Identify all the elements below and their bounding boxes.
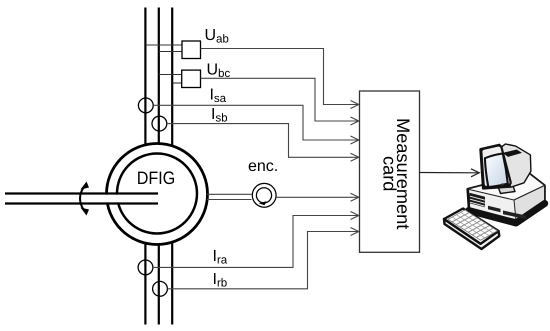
wire: stator phase line b (vertical) (158, 8, 160, 148)
arrow into card input 6 (351, 212, 359, 220)
encoder rotation mark (259, 201, 267, 205)
label Isa (211, 88, 226, 102)
current transducer Isb (circle on phase b) (152, 116, 167, 131)
computer case bottom base band (469, 204, 545, 224)
wire: Ira output to measurement card (153, 216, 358, 268)
tap wire: phase b to voltage transducer Uab (159, 51, 182, 53)
computer case drive slot wide (503, 211, 526, 220)
label DFIG (138, 171, 174, 184)
computer case drive slot small (488, 206, 501, 213)
computer case top face (468, 174, 545, 201)
computer icon (PC with monitor, case, keyboard) (444, 145, 545, 249)
tap wire: phase c to voltage transducer Ubc (172, 82, 182, 84)
machine DFIG inner circle (117, 154, 197, 234)
arrow into card input 7 (351, 228, 359, 236)
voltage transducer Ubc (square) (182, 70, 201, 87)
measurement card box (360, 91, 420, 252)
rotation arrow on shaft (80, 182, 89, 216)
label Ubc (208, 63, 230, 77)
machine DFIG outer circle (107, 144, 208, 245)
monitor CRT right side face (502, 145, 531, 187)
arrow into card input 5 (351, 193, 359, 201)
wire: Irb output to measurement card (167, 232, 357, 289)
arrow into card input 3 (351, 136, 359, 144)
wire: rotor phase line c (vertical) (171, 241, 173, 325)
wire: rotor phase line b (vertical) (158, 241, 160, 325)
encoder shaft (double thin line from DFIG to encoder) (207, 194, 252, 199)
wire: encoder output to measurement card (276, 196, 357, 198)
computer case vent grille (470, 193, 486, 207)
label Ira (214, 250, 227, 264)
label enc. (249, 162, 277, 171)
monitor power dot (501, 183, 503, 185)
wire: Uab output to measurement card (201, 49, 358, 105)
label Irb (214, 273, 227, 287)
arrow into computer (471, 169, 479, 177)
label Isb (212, 108, 227, 122)
monitor front bezel (481, 146, 510, 187)
monitor silhouette / CRT rear (481, 145, 531, 189)
wire: measurement card to computer (420, 172, 478, 174)
encoder outer circle (252, 183, 276, 207)
voltage transducer Uab (square) (182, 41, 201, 59)
keyboard (444, 209, 499, 250)
label Measurement card (rotated) (383, 120, 409, 230)
monitor screen (485, 154, 508, 188)
keyboard keys (448, 210, 497, 240)
computer case right face (514, 186, 545, 221)
label Uab (206, 29, 229, 43)
current transducer Isa (circle on phase a) (138, 98, 153, 113)
monitor rear vent slot (503, 150, 522, 157)
shaft (left, double line with white gap) (5, 194, 158, 204)
arrow into card input 2 (351, 117, 359, 125)
current transducer Ira (circle on rotor phase a) (138, 260, 153, 275)
tap wire: phase a to voltage transducer Uab (145, 44, 182, 46)
wire: Ubc output to measurement card (201, 78, 358, 121)
arrow into card input 4 (351, 153, 359, 161)
tap wire: phase b to voltage transducer Ubc (159, 74, 182, 76)
wire: Isb output to measurement card (167, 124, 358, 158)
current transducer Irb (circle on rotor phase b) (153, 281, 168, 296)
wire: rotor phase line a (vertical) (144, 241, 146, 325)
computer case body (468, 174, 545, 221)
wire: stator phase line c (vertical) (171, 8, 173, 148)
encoder inner circle (256, 188, 271, 203)
monitor stand (498, 185, 515, 194)
arrow into card input 1 (351, 101, 359, 109)
wire: Isa output to measurement card (153, 105, 357, 140)
wire: stator phase line a (vertical) (144, 8, 146, 148)
